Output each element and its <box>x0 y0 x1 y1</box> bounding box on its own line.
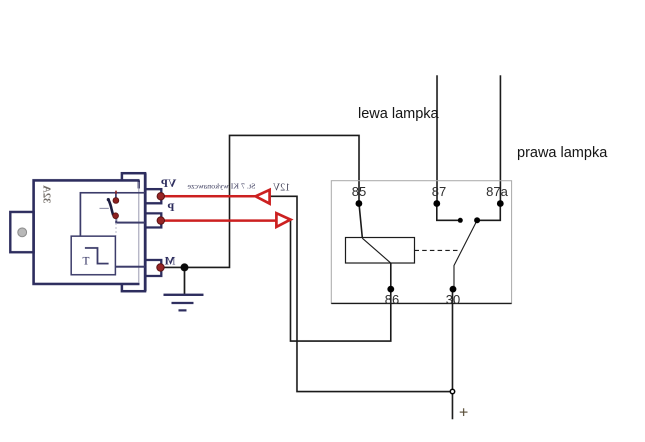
svg-text:30: 30 <box>446 292 460 307</box>
svg-text:12V: 12V <box>272 183 290 194</box>
svg-text:M: M <box>164 255 175 267</box>
svg-text:lewa lampka: lewa lampka <box>358 106 440 122</box>
svg-text:85: 85 <box>352 184 366 199</box>
svg-text:T: T <box>82 255 89 267</box>
svg-text:P: P <box>167 202 174 214</box>
svg-text:87a: 87a <box>486 184 508 199</box>
svg-text:87: 87 <box>432 184 446 199</box>
svg-text:VP: VP <box>161 178 176 190</box>
svg-text:prawa lampka: prawa lampka <box>517 145 608 161</box>
svg-text:+: + <box>459 405 468 422</box>
svg-text:St. 7 KI wykonawcze: St. 7 KI wykonawcze <box>188 182 256 190</box>
svg-text:86: 86 <box>385 292 399 307</box>
svg-text:32A: 32A <box>40 185 51 204</box>
